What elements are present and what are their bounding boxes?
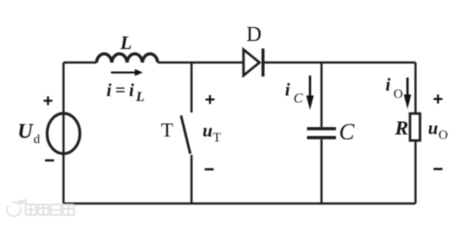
wire top rail left (64, 61, 97, 63)
svg-text:R: R (394, 118, 408, 140)
switch T blade (181, 116, 190, 154)
wire top rail right (263, 61, 416, 63)
svg-text:T: T (213, 130, 221, 145)
svg-text:u: u (428, 118, 438, 138)
current arrow i=iL (111, 69, 143, 76)
svg-text:O: O (439, 127, 448, 142)
minus source (45, 159, 54, 161)
capacitor C plates (307, 127, 336, 130)
svg-text:i: i (386, 75, 391, 95)
svg-text:U: U (18, 119, 35, 143)
svg-text:C: C (339, 120, 355, 145)
svg-text:L: L (119, 33, 132, 54)
inductor L (97, 54, 158, 63)
svg-text:T: T (161, 120, 173, 142)
wire top rail middle (158, 61, 243, 63)
wire switch branch upper (190, 63, 192, 113)
current arrow iC (306, 76, 314, 111)
svg-text:C: C (294, 92, 304, 107)
wire right rail upper (414, 63, 416, 114)
plus source (44, 96, 53, 105)
svg-text:D: D (246, 22, 261, 46)
plus uT (206, 95, 215, 104)
svg-text:i = i: i = i (107, 80, 134, 100)
wire right rail lower (414, 141, 416, 204)
wire left rail (62, 63, 64, 204)
resistor R (410, 114, 420, 141)
wire capacitor branch upper (320, 63, 322, 128)
watermark logo (7, 200, 74, 216)
svg-text:O: O (394, 86, 403, 101)
minus uT (205, 168, 214, 170)
svg-text:d: d (34, 131, 41, 146)
minus output (434, 168, 443, 170)
diode D (244, 50, 260, 76)
svg-text:u: u (203, 121, 213, 141)
wire capacitor branch lower (320, 140, 322, 204)
current arrow iO (404, 78, 411, 110)
wire bottom rail (64, 202, 416, 204)
plus output (434, 95, 443, 104)
wire switch branch lower (190, 155, 192, 204)
svg-text:L: L (135, 90, 145, 105)
svg-text:i: i (285, 80, 290, 100)
voltage source Ud (47, 113, 80, 153)
